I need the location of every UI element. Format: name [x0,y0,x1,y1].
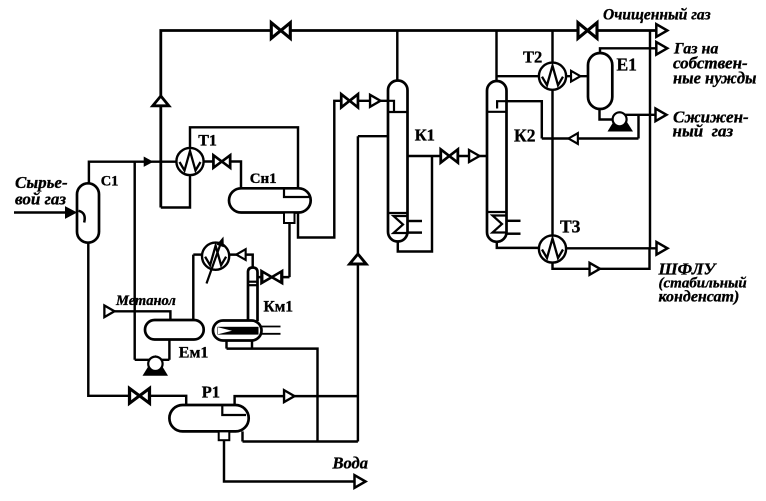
svg-text:Очищенный газ: Очищенный газ [603,7,711,24]
svg-text:Км1: Км1 [264,299,294,316]
svg-text:Т1: Т1 [198,133,217,150]
svg-text:вой газ: вой газ [15,190,66,209]
svg-text:Вода: Вода [332,454,368,473]
svg-text:Е1: Е1 [617,55,637,75]
svg-text:С1: С1 [101,174,119,190]
svg-text:Р1: Р1 [202,383,220,402]
svg-text:ные нужды: ные нужды [673,69,756,88]
svg-text:Т2: Т2 [523,48,542,67]
svg-text:ный газ: ный газ [673,122,734,141]
svg-text:К1: К1 [415,126,435,145]
svg-text:конденсат): конденсат) [659,289,740,306]
svg-text:Метанол: Метанол [115,293,176,309]
svg-text:Сн1: Сн1 [250,171,277,187]
svg-text:Ем1: Ем1 [179,345,209,362]
svg-text:К2: К2 [514,126,535,146]
svg-text:Т3: Т3 [560,217,581,237]
